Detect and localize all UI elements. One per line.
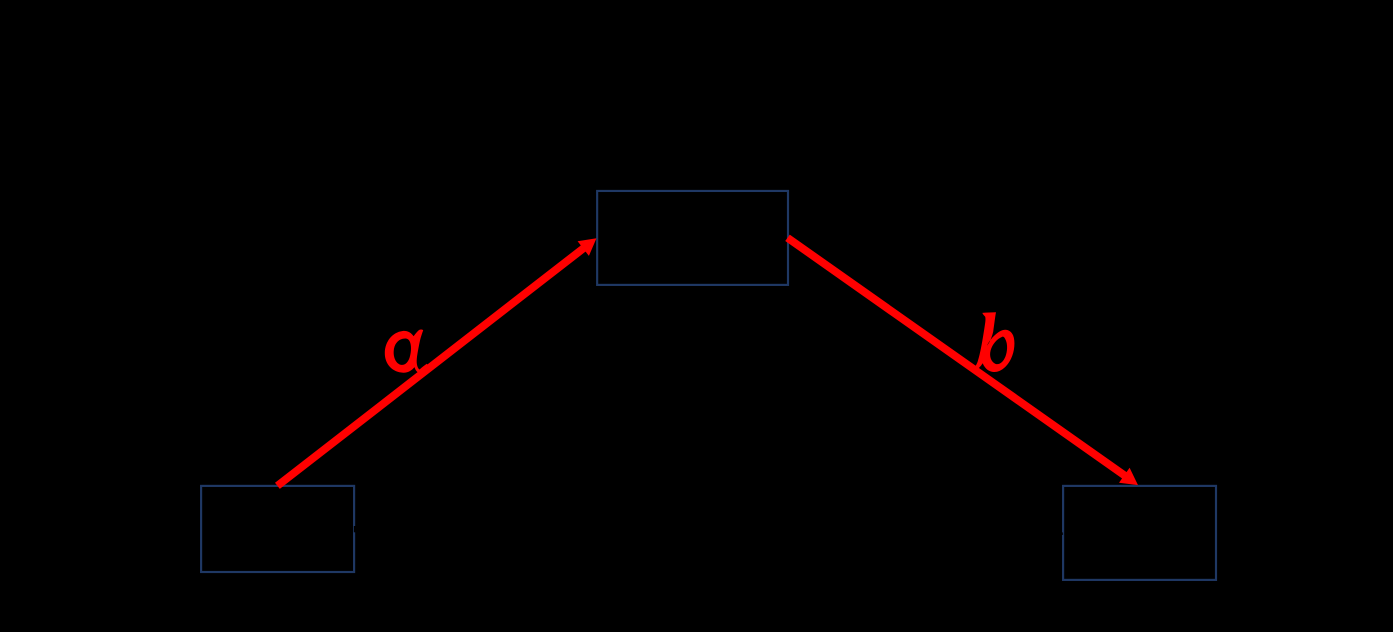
notch on left box right border (black text overlap): [354, 526, 358, 532]
box left (bottom-left rectangle): [201, 486, 354, 572]
notch on right box left border (black text overlap): [1061, 532, 1063, 535]
arrow b (middle box to right box, arrowhead at bottom): [788, 238, 1139, 485]
box right (bottom-right rectangle): [1063, 486, 1216, 580]
label a: [385, 330, 428, 374]
label b: [971, 312, 1014, 372]
box middle (top rectangle): [597, 191, 788, 285]
arrow a (left box to middle box, arrowhead at top): [277, 238, 596, 485]
